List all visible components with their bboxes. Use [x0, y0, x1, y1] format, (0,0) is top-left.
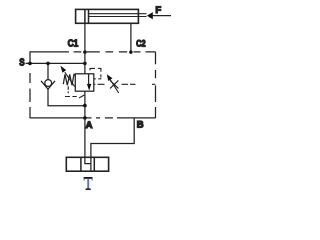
block internal A channel jog	[85, 157, 91, 163]
node S-envelope dot	[28, 62, 32, 66]
wire A-line upper (C1 to relief box)	[84, 52, 86, 74]
svg-text:C2: C2	[136, 39, 146, 50]
force arrow F shaft	[152, 15, 172, 17]
node S-C1 dot	[83, 62, 87, 66]
svg-text:F: F	[155, 5, 161, 16]
wire C1 drop from cylinder	[84, 23, 86, 52]
relief valve internal flow arrow	[88, 74, 90, 84]
pilot choke X symbol	[110, 80, 118, 88]
wire check valve stem lower	[48, 89, 85, 106]
cylinder body	[76, 9, 139, 23]
force arrowhead	[147, 12, 153, 19]
svg-text:S: S	[19, 57, 25, 68]
node A port dot	[83, 116, 87, 120]
block divider 1	[80, 157, 82, 171]
wire S supply line	[26, 62, 85, 64]
relief valve spring	[63, 74, 75, 85]
envelope bottom edge (dash-dot)	[30, 117, 156, 119]
manifold block	[66, 157, 108, 171]
pilot drain (dashed) lower left	[65, 86, 84, 98]
check valve V1 ball	[45, 80, 52, 87]
block divider 2	[93, 157, 95, 171]
wire A-line lower (relief box to A port)	[84, 91, 86, 118]
node C2 junction dot	[129, 50, 133, 54]
relief valve RV1 body	[75, 74, 94, 91]
node check-branch dot	[46, 62, 50, 66]
pilot line to right (dashed)	[94, 83, 156, 85]
piston (double line)	[84, 9, 86, 23]
pilot choke adjustment arrow	[109, 78, 119, 93]
piston rod (double line)	[89, 13, 147, 15]
wire A port down to block	[84, 118, 86, 157]
pilot mini-box (dashed) top right	[90, 68, 102, 79]
wire C2 drop from cylinder	[130, 23, 132, 52]
envelope right edge (dash-dot)	[155, 52, 157, 118]
wire B port pipe	[91, 118, 134, 157]
relief valve adjustment arrow	[65, 72, 75, 86]
check valve V1 seat	[41, 81, 55, 89]
envelope left edge (dash-dot)	[29, 51, 31, 118]
label T (serif, tank port)	[84, 177, 93, 190]
block internal T channel	[90, 157, 92, 171]
envelope top edge (dash-dot)	[30, 51, 156, 53]
wire check valve stem upper	[47, 63, 49, 79]
svg-text:B: B	[137, 120, 144, 131]
node C1 junction dot	[83, 50, 87, 54]
svg-text:C1: C1	[68, 39, 79, 50]
svg-text:A: A	[86, 120, 93, 131]
node relief outlet dot	[83, 104, 87, 108]
